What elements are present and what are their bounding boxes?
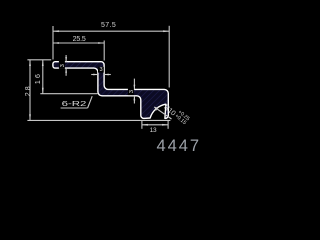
dimension / extension lines — [27, 26, 171, 129]
28 dim line — [29, 60, 31, 120]
16 arrows — [42, 60, 44, 66]
profile body outer contour (Z-shaped picture-frame moulding section) — [53, 62, 168, 119]
3 lower-arm dim line — [133, 79, 135, 90]
57.5 arrows — [53, 30, 59, 32]
13 arrows — [142, 124, 148, 126]
ext line right 25.5 (step wall face) — [103, 41, 105, 61]
6-R2 underline + leader — [61, 107, 88, 109]
svg-text:6-R2: 6-R2 — [62, 99, 87, 108]
3 top-arm arrows — [65, 57, 67, 62]
25.5 arrows — [53, 42, 59, 44]
R10 tolerance text (rotated, along leader) — [162, 100, 190, 126]
ext top shared 28/16 — [27, 59, 51, 61]
svg-text:25.5: 25.5 — [73, 36, 86, 43]
3 lower-arm arrows — [134, 85, 136, 90]
svg-text:13: 13 — [150, 127, 157, 134]
3 wall arrows — [93, 74, 98, 76]
28 arrows — [29, 60, 31, 66]
ext bottom 16 (to lower arm) — [40, 93, 97, 95]
svg-text:57.5: 57.5 — [101, 22, 116, 29]
dimension texts — [25, 22, 157, 134]
ext line right 57.5 — [168, 26, 170, 88]
R10 leader arrow — [154, 107, 159, 111]
black backers where 3-texts interrupt profile lines — [59, 61, 134, 95]
svg-text:3: 3 — [60, 64, 66, 67]
13 ext lines — [141, 121, 143, 129]
svg-text:3: 3 — [129, 90, 135, 93]
ext line left (shared 57.5 / 25.5) — [52, 26, 54, 60]
dim line 25.5 — [53, 42, 104, 44]
svg-text:4447: 4447 — [157, 137, 200, 155]
arrowheads — [29, 30, 169, 125]
dim line 57.5 — [53, 30, 169, 32]
16 dim line — [42, 60, 44, 94]
R10 leader — [154, 107, 171, 119]
svg-text:3: 3 — [99, 67, 102, 73]
ext bottom 28 (long, to foot) — [27, 119, 170, 121]
3 top-arm dim line — [65, 55, 67, 62]
3 step-wall dim line — [91, 74, 98, 76]
13 dim line — [142, 124, 168, 126]
